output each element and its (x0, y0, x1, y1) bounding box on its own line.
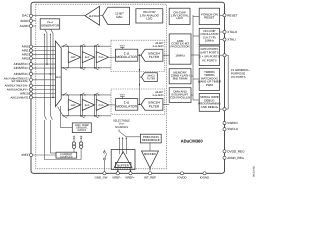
pin RESET (220, 13, 238, 17)
svg-text:LDO: LDO (146, 17, 153, 21)
block precision reference (140, 134, 161, 143)
block serial wire debug (198, 93, 221, 111)
svg-text:EXTREF2IN+: EXTREF2IN+ (12, 79, 29, 83)
op-amp DAC output buffer (85, 6, 103, 25)
svg-text:SOURCES: SOURCES (60, 155, 73, 158)
pin SWDIO (223, 121, 238, 125)
text figure number (253, 165, 256, 177)
pin INT_REF (144, 172, 156, 180)
wire shared filter vertical (139, 55, 142, 104)
svg-text:SWCLK: SWCLK (227, 127, 239, 131)
block ARM Cortex-M3 processor (169, 34, 191, 64)
block 12-BIT DAC (103, 7, 130, 24)
wire ADC1 output to DMA (163, 103, 169, 105)
wire MUX aux input (61, 106, 73, 128)
wire modulator0 to filter (138, 54, 141, 56)
svg-text:BUF: BUF (85, 56, 90, 59)
op-amp channel A BUF (82, 46, 94, 68)
pin AIN8/EXTREF2IN- (5, 84, 56, 88)
svg-text:FILTER: FILTER (147, 77, 156, 80)
svg-text:16MHz: 16MHz (175, 54, 185, 58)
pin GPIO bracket top (220, 54, 226, 57)
svg-text:IOGND: IOGND (200, 175, 209, 179)
svg-text:LDO: LDO (177, 16, 184, 20)
svg-text:8kB SRAM: 8kB SRAM (173, 77, 188, 81)
pin AVDD_REG (223, 156, 245, 160)
ADC0 dashed box (111, 40, 165, 71)
op-amp internal reference buffer (142, 143, 159, 173)
op-amp channel B BUF (82, 95, 94, 116)
svg-text:XTALO: XTALO (227, 30, 238, 34)
chip outline (31, 2, 225, 173)
svg-text:SWDIO: SWDIO (227, 121, 238, 125)
block DMA and interrupt controller (169, 88, 191, 103)
wire modulator1 to filter (138, 104, 141, 106)
pin AIN9/DACBUFF+ (7, 88, 56, 92)
block current sources (56, 152, 77, 158)
block power-on reset (199, 8, 219, 24)
wire VREF+ to buffer (130, 168, 132, 174)
svg-text:VREF−: VREF− (112, 175, 122, 179)
svg-text:RESET: RESET (204, 15, 214, 19)
svg-text:SOURCES: SOURCES (115, 126, 128, 129)
current source IEXC1 (79, 136, 82, 159)
switch to precision reference (119, 129, 140, 137)
pin AIN4/IEXC (14, 62, 56, 66)
op-amp channel B AMP (68, 95, 80, 116)
pin AIN1 (22, 49, 56, 53)
block SINC3/4 filter ADC0 (141, 49, 163, 61)
wire IEXC route A with switch (44, 36, 81, 160)
pin AIN10 (20, 92, 55, 96)
block on-chip oscillator (199, 28, 219, 45)
analog section dashed border (36, 4, 167, 169)
wire channel A top rail (61, 44, 111, 47)
block GPIO UART SPI I2C ports (199, 46, 219, 66)
block sigma-delta modulator ADC0 (116, 49, 138, 61)
wire VBIAS1 to AIN11 line (52, 33, 54, 98)
svg-text:PGA: PGA (99, 104, 104, 107)
text selectable VREF sources (113, 119, 130, 129)
block SINC3 filter shared (142, 73, 158, 82)
external reference buffer box (111, 150, 135, 170)
svg-text:Σ-Δ ADC: Σ-Δ ADC (152, 44, 163, 48)
svg-text:AGND: AGND (20, 24, 30, 28)
ADC1 dashed box (111, 89, 165, 115)
pin DAC (22, 14, 85, 18)
svg-text:MODULATOR: MODULATOR (116, 104, 137, 108)
svg-text:I/O PORTS: I/O PORTS (231, 75, 246, 79)
op-amp external reference buffer (114, 152, 132, 168)
pin AIN0 (22, 45, 56, 49)
current source IEXC0 (72, 136, 75, 152)
svg-text:VREF+: VREF+ (125, 175, 135, 179)
svg-text:I²C PORTS: I²C PORTS (202, 58, 217, 62)
svg-text:BUFFER: BUFFER (89, 15, 99, 18)
svg-text:DAC: DAC (22, 14, 29, 18)
wire VREF- to buffer (117, 168, 119, 174)
svg-text:BUF: BUF (85, 104, 90, 107)
svg-text:AIN11/VBIAS1: AIN11/VBIAS1 (10, 95, 29, 99)
wire internal bus (191, 15, 199, 100)
text ADuCM360 (181, 139, 204, 144)
svg-text:IOVDD: IOVDD (177, 175, 186, 179)
svg-text:INT_REF: INT_REF (144, 175, 156, 179)
svg-text:CONTROLLER: CONTROLLER (170, 96, 191, 100)
pin AGND (20, 24, 36, 28)
svg-text:AMP: AMP (71, 104, 76, 107)
node VREF label ADC0 (120, 44, 126, 49)
switch GND_SW (104, 150, 107, 174)
svg-text:GND_SW: GND_SW (95, 175, 108, 179)
pin AIN6/IEXC (14, 72, 56, 76)
pin DVDD_REG (223, 149, 245, 153)
svg-text:AVDD_REG: AVDD_REG (227, 156, 244, 160)
block on-chip 1.8V analog LDO (136, 9, 163, 23)
block GND TEMP SENSOR AVDD/4 (72, 123, 91, 133)
svg-text:MUX: MUX (56, 76, 62, 79)
svg-text:IREF: IREF (22, 153, 29, 157)
svg-text:ADuCM360: ADuCM360 (181, 139, 204, 144)
block sigma-delta modulator ADC1 (116, 99, 138, 111)
pin AIN5/IEXC (14, 66, 56, 70)
wire ADC0 output to ARM (163, 54, 169, 56)
svg-text:Σ-Δ ADC: Σ-Δ ADC (152, 93, 163, 97)
block SINC3/4 filter ADC1 (141, 99, 163, 111)
svg-text:AIN3: AIN3 (22, 56, 29, 60)
svg-text:XTALI: XTALI (227, 38, 236, 42)
pin GND_SW (95, 172, 108, 180)
pin XTALI (220, 38, 236, 42)
wire channel B top rail (61, 93, 111, 96)
block VBIAS generator (40, 19, 60, 29)
multiplexer MUX (55, 41, 61, 107)
svg-text:AMP: AMP (71, 56, 76, 59)
svg-text:AVDD/4: AVDD/4 (77, 129, 86, 132)
wire IEXC route B with switch (50, 36, 56, 154)
svg-text:AIN6/IEXC: AIN6/IEXC (14, 72, 30, 76)
pin SWCLK (223, 127, 239, 131)
block memory flash SRAM (169, 69, 191, 84)
wire channel A bottom rail (61, 67, 111, 70)
svg-text:BUFFER: BUFFER (144, 152, 156, 156)
GPIO ports bracket (226, 55, 250, 109)
op-amp channel B PGA gain stage (96, 95, 115, 116)
svg-text:GENERATOR: GENERATOR (41, 24, 59, 28)
pin AIN7/VBIAS0/IEXC EXTREF2IN+ (4, 76, 56, 83)
svg-text:BUFFER: BUFFER (117, 163, 129, 167)
pin XTALO (220, 30, 238, 34)
wire VBIAS0 to AIN4 line (46, 33, 48, 65)
pin AIN3 (22, 56, 56, 60)
pin AIN2 (22, 52, 56, 56)
svg-text:PWM: PWM (206, 83, 214, 87)
svg-text:MODULATOR: MODULATOR (116, 55, 137, 59)
pin AVDD (20, 19, 36, 23)
op-amp channel A AMP (68, 46, 80, 68)
svg-text:AVDD: AVDD (20, 19, 29, 23)
svg-text:FILTER: FILTER (149, 55, 160, 59)
pin IOVDD (177, 172, 186, 180)
pin VREF- (112, 172, 122, 180)
svg-text:DVDD_REG: DVDD_REG (227, 149, 245, 153)
pin GPIO bracket bottom (220, 108, 226, 111)
svg-text:FILTER: FILTER (149, 104, 160, 108)
svg-text:PGA: PGA (99, 56, 104, 59)
svg-text:DAC: DAC (116, 15, 123, 19)
switch VBIAS0 (44, 29, 47, 35)
svg-text:VREF: VREF (120, 94, 126, 97)
wire channel B bottom rail (58, 107, 112, 119)
wire vref source select lines (119, 137, 127, 154)
switch VBIAS1 (50, 29, 53, 35)
svg-text:AIN5/IEXC: AIN5/IEXC (14, 66, 30, 70)
svg-text:PROCESSOR: PROCESSOR (171, 45, 191, 49)
svg-text:SELECTABLE: SELECTABLE (113, 119, 130, 122)
node VREF label ADC1 (120, 94, 126, 99)
block timers watchdog PWM (198, 68, 221, 90)
svg-text:AND DEBUG: AND DEBUG (201, 105, 219, 109)
pin IOGND (200, 172, 209, 180)
pin VREF+ (125, 172, 135, 180)
svg-text:09123-001: 09123-001 (253, 165, 256, 177)
svg-text:16MHz: 16MHz (205, 39, 215, 43)
block on-chip 1.8V digital LDO (169, 8, 190, 24)
pin IREF (22, 153, 56, 157)
svg-text:REFERENCE: REFERENCE (142, 138, 160, 142)
pin AIN11/VBIAS1 (10, 95, 55, 99)
svg-text:RESET: RESET (227, 13, 237, 17)
svg-text:VREF: VREF (120, 44, 126, 47)
op-amp channel A PGA gain stage (96, 46, 115, 68)
